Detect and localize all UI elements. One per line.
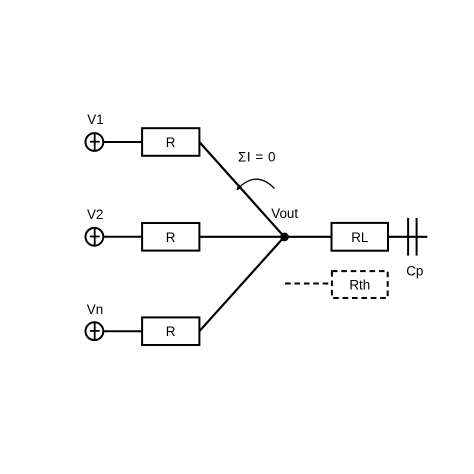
capacitor Cp plates bbox=[408, 218, 417, 256]
annotation arc bbox=[237, 179, 274, 189]
resistor Rth (dashed, Thevenin) bbox=[332, 271, 388, 298]
source Vn bbox=[86, 322, 104, 341]
svg-text:Rth: Rth bbox=[349, 277, 370, 292]
svg-text:ΣI = 0: ΣI = 0 bbox=[238, 150, 276, 165]
dashed wire to Rth bbox=[285, 283, 331, 285]
resistor RL bbox=[332, 223, 389, 251]
source V2 bbox=[86, 227, 104, 246]
svg-text:Vout: Vout bbox=[271, 206, 298, 221]
wire R3 to node bbox=[199, 237, 284, 331]
svg-text:V2: V2 bbox=[87, 207, 103, 222]
svg-text:R: R bbox=[166, 324, 176, 339]
wire R2 to node bbox=[199, 236, 284, 238]
wire V1 to R1 bbox=[104, 141, 143, 143]
svg-text:Vn: Vn bbox=[87, 302, 103, 317]
svg-text:Cp: Cp bbox=[406, 263, 423, 278]
wire Vn to R3 bbox=[104, 330, 143, 332]
resistor R1 bbox=[142, 128, 199, 156]
svg-text:R: R bbox=[166, 135, 176, 150]
resistor R2 bbox=[142, 223, 199, 251]
annotation arrowhead bbox=[237, 185, 242, 190]
svg-text:V1: V1 bbox=[87, 112, 103, 127]
wire RL to Cp bbox=[389, 236, 428, 238]
node Vout (junction dot) bbox=[280, 233, 289, 242]
svg-text:R: R bbox=[166, 230, 176, 245]
svg-text:RL: RL bbox=[351, 230, 368, 245]
source V1 bbox=[86, 133, 104, 152]
wire node to RL bbox=[284, 236, 331, 238]
wire R1 to node bbox=[199, 142, 284, 237]
resistor R3 bbox=[142, 317, 199, 345]
wire V2 to R2 bbox=[104, 236, 143, 238]
